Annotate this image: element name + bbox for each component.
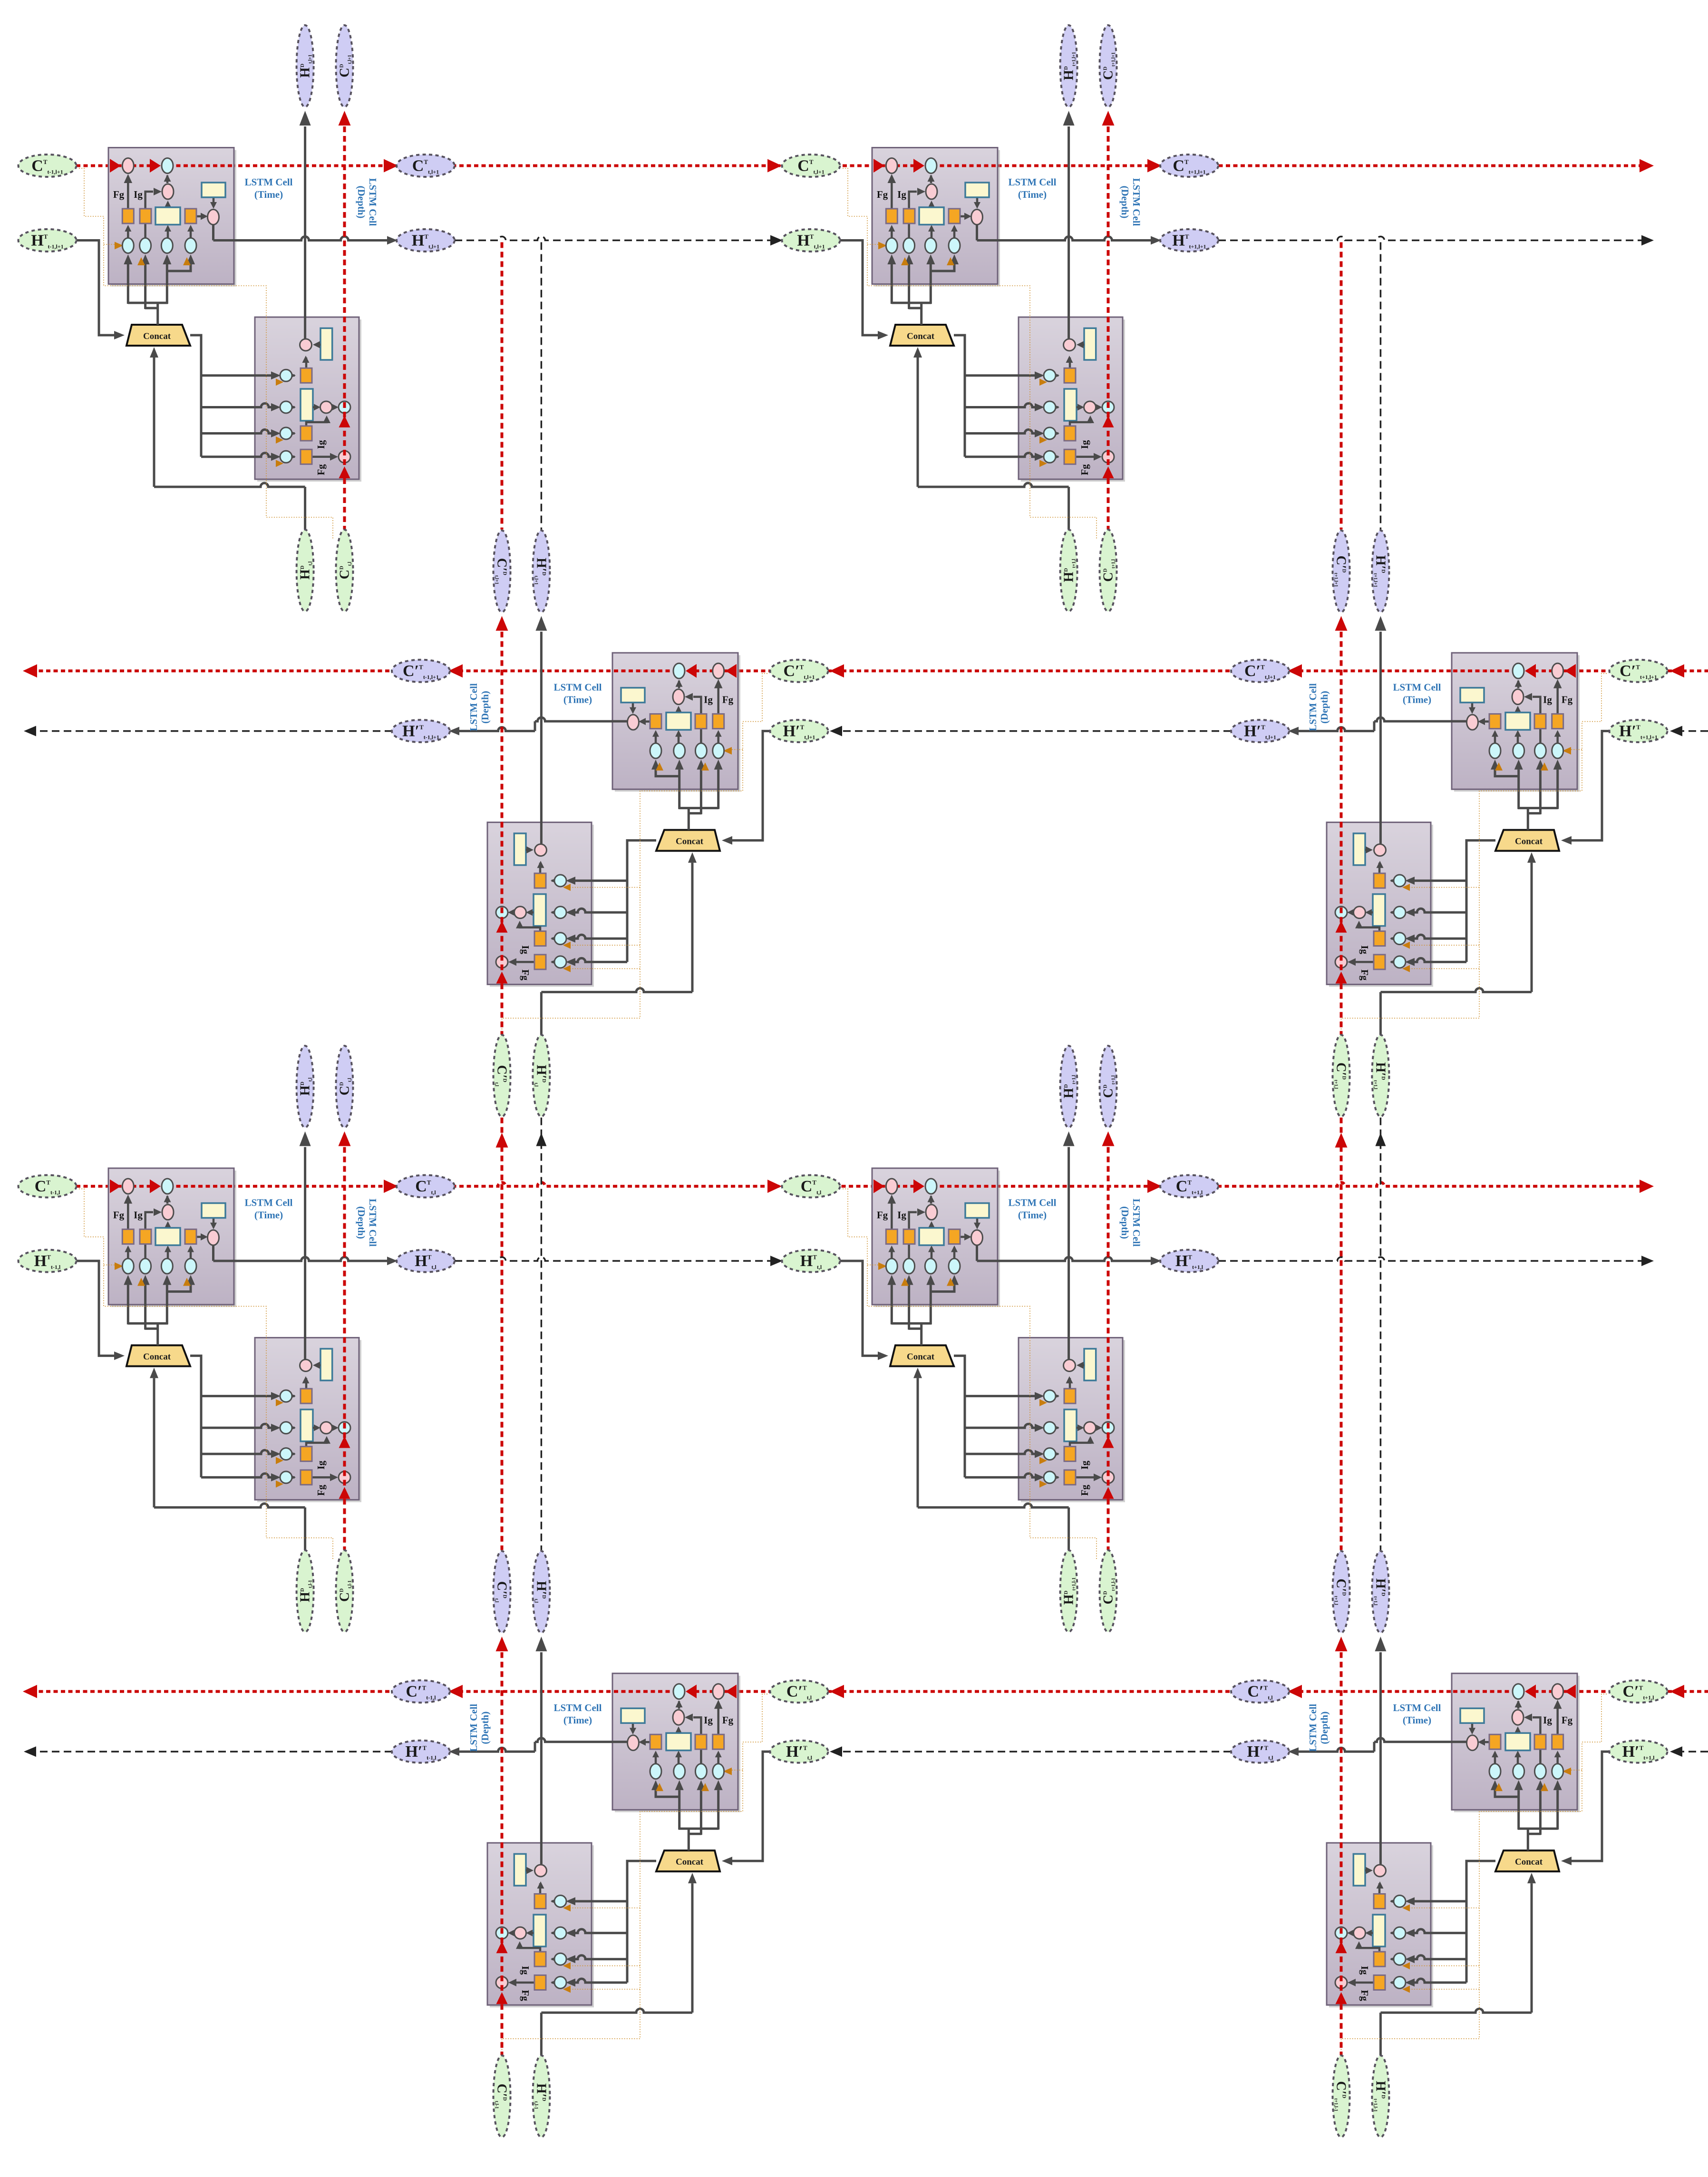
svg-text:LSTM Cell: LSTM Cell	[1009, 176, 1057, 188]
svg-text:Ig: Ig	[897, 1209, 906, 1221]
svg-text:(Time): (Time)	[1018, 1209, 1047, 1221]
svg-text:Fg: Fg	[722, 694, 734, 706]
svg-text:Fg: Fg	[877, 1209, 888, 1221]
svg-text:Concat: Concat	[907, 1352, 935, 1362]
svg-text:Ig: Ig	[704, 694, 713, 706]
svg-text:Ig: Ig	[897, 189, 906, 200]
svg-text:Ig: Ig	[134, 1209, 143, 1221]
svg-text:Fg: Fg	[1079, 464, 1090, 475]
svg-text:Ig: Ig	[520, 1966, 531, 1975]
svg-text:LSTM Cell: LSTM Cell	[554, 1702, 602, 1713]
svg-text:Fg: Fg	[1359, 1990, 1370, 2002]
svg-text:(Depth): (Depth)	[1119, 186, 1131, 219]
svg-text:(Time): (Time)	[563, 1714, 592, 1726]
svg-text:Ig: Ig	[520, 945, 531, 954]
svg-text:Ig: Ig	[134, 189, 143, 200]
svg-text:Concat: Concat	[1515, 1857, 1543, 1867]
svg-text:LSTM Cell: LSTM Cell	[367, 1199, 378, 1247]
svg-text:Ig: Ig	[1359, 1966, 1370, 1975]
svg-text:(Depth): (Depth)	[1119, 1206, 1131, 1239]
svg-text:LSTM Cell: LSTM Cell	[468, 683, 479, 731]
svg-text:Ig: Ig	[315, 1461, 327, 1470]
svg-text:Fg: Fg	[722, 1714, 734, 1726]
svg-text:LSTM Cell: LSTM Cell	[245, 1197, 293, 1209]
svg-text:Fg: Fg	[1562, 1714, 1573, 1726]
svg-text:Concat: Concat	[676, 1857, 704, 1867]
svg-text:Fg: Fg	[520, 969, 531, 981]
svg-text:Ig: Ig	[315, 440, 327, 449]
svg-text:Concat: Concat	[676, 837, 704, 847]
svg-text:Fg: Fg	[113, 1209, 125, 1221]
svg-text:Ig: Ig	[1079, 1461, 1090, 1470]
svg-text:(Time): (Time)	[1403, 1714, 1431, 1726]
svg-text:LSTM Cell: LSTM Cell	[468, 1704, 479, 1752]
svg-text:LSTM Cell: LSTM Cell	[1131, 178, 1142, 226]
svg-text:(Time): (Time)	[254, 1209, 283, 1221]
svg-text:(Depth): (Depth)	[356, 1206, 367, 1239]
svg-text:Concat: Concat	[143, 1352, 171, 1362]
svg-text:Fg: Fg	[520, 1990, 531, 2002]
svg-text:LSTM Cell: LSTM Cell	[367, 178, 378, 226]
svg-text:LSTM Cell: LSTM Cell	[1009, 1197, 1057, 1209]
svg-text:Ig: Ig	[1543, 694, 1552, 706]
svg-text:(Depth): (Depth)	[356, 186, 367, 219]
svg-text:(Depth): (Depth)	[1319, 1712, 1330, 1744]
svg-text:Concat: Concat	[907, 331, 935, 341]
svg-text:Concat: Concat	[143, 331, 171, 341]
svg-text:Fg: Fg	[877, 189, 888, 200]
svg-text:Fg: Fg	[1079, 1484, 1090, 1496]
svg-text:Ig: Ig	[704, 1714, 713, 1726]
svg-text:LSTM Cell: LSTM Cell	[1307, 683, 1319, 731]
svg-text:LSTM Cell: LSTM Cell	[1131, 1199, 1142, 1247]
svg-text:(Time): (Time)	[563, 694, 592, 706]
svg-text:(Depth): (Depth)	[1319, 691, 1330, 724]
svg-text:(Depth): (Depth)	[479, 691, 491, 724]
svg-text:(Time): (Time)	[1403, 694, 1431, 706]
svg-text:(Time): (Time)	[254, 189, 283, 200]
svg-text:Fg: Fg	[113, 189, 125, 200]
svg-text:Ig: Ig	[1079, 440, 1090, 449]
svg-text:Fg: Fg	[315, 1484, 327, 1496]
svg-text:Fg: Fg	[1359, 969, 1370, 981]
svg-text:LSTM Cell: LSTM Cell	[245, 176, 293, 188]
svg-text:(Depth): (Depth)	[479, 1712, 491, 1744]
svg-text:Fg: Fg	[315, 464, 327, 475]
svg-text:(Time): (Time)	[1018, 189, 1047, 200]
svg-text:LSTM Cell: LSTM Cell	[1393, 682, 1441, 693]
svg-text:Concat: Concat	[1515, 837, 1543, 847]
svg-text:LSTM Cell: LSTM Cell	[1393, 1702, 1441, 1713]
svg-text:Ig: Ig	[1543, 1714, 1552, 1726]
svg-text:LSTM Cell: LSTM Cell	[1307, 1704, 1319, 1752]
svg-text:Ig: Ig	[1359, 945, 1370, 954]
svg-text:Fg: Fg	[1562, 694, 1573, 706]
svg-text:LSTM Cell: LSTM Cell	[554, 682, 602, 693]
